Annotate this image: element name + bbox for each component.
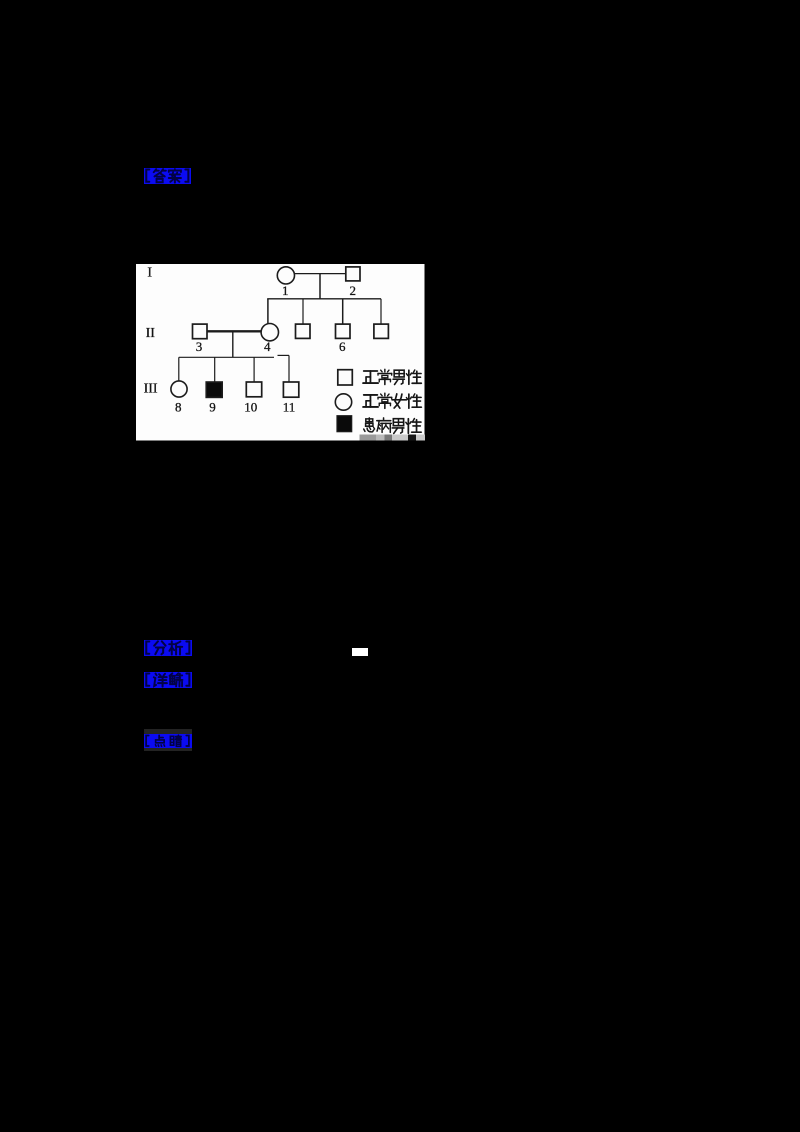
svg-text:3: 3 <box>195 339 202 354</box>
svg-text:4: 4 <box>264 339 271 354</box>
male I-2 square <box>345 266 359 280</box>
male II-7 square <box>373 324 388 338</box>
drop to II-5 <box>302 298 304 323</box>
tips label 【点睛】 blue highlight <box>144 734 192 748</box>
female II-4 circle <box>261 323 278 340</box>
tips label grey halo <box>144 729 192 752</box>
marriage line I-1 I-2 <box>294 272 345 274</box>
legend normal male square <box>337 369 352 384</box>
drop to III-9 <box>213 357 215 382</box>
legend affected male filled square <box>337 415 352 431</box>
svg-text:10: 10 <box>244 399 257 414</box>
detail label 【详解】 blue highlight <box>144 672 192 688</box>
drop to II-4 <box>266 298 268 323</box>
svg-text:9: 9 <box>209 399 216 414</box>
svg-text:1: 1 <box>281 283 288 298</box>
answer label 【答案】 blue highlight <box>144 168 191 184</box>
male II-6 square <box>335 324 350 338</box>
drop to III-8 <box>177 357 179 381</box>
male III-11 square <box>283 382 298 397</box>
drop to II-7 <box>380 298 382 323</box>
svg-text:I: I <box>147 265 152 280</box>
marriage line II-3 II-4 <box>207 330 261 332</box>
descent line from I couple <box>319 273 321 298</box>
sibling line generation III <box>178 356 273 358</box>
male II-3 square <box>192 324 207 339</box>
pedigree chart figure <box>136 264 425 441</box>
affected male III-9 filled square <box>206 382 222 397</box>
drop to III-11 <box>288 355 290 382</box>
sibling line generation II <box>267 297 381 299</box>
legend normal female circle <box>335 393 351 409</box>
analysis label 【分析】 blue highlight <box>144 640 192 656</box>
grey artifact bar at image bottom <box>359 434 376 440</box>
inline formula white box <box>352 648 368 656</box>
svg-text:III: III <box>143 381 157 396</box>
descent line from II-3 II-4 <box>231 331 233 357</box>
drop to II-6 <box>341 298 343 323</box>
svg-text:2: 2 <box>349 283 356 298</box>
male III-10 square <box>246 382 261 397</box>
svg-text:11: 11 <box>282 399 295 414</box>
svg-text:6: 6 <box>338 339 345 354</box>
female III-8 circle <box>170 380 186 396</box>
legend text affected male 患病男性 <box>363 417 374 431</box>
legend text normal female 正常女性 <box>363 394 378 406</box>
drop to III-10 <box>253 357 255 382</box>
male II-5 square <box>295 324 310 338</box>
svg-text:II: II <box>145 326 155 341</box>
svg-text:8: 8 <box>174 399 181 414</box>
sibling line III right step <box>277 354 289 356</box>
legend text normal male 正常男性 <box>363 371 378 383</box>
female I-1 circle <box>277 266 294 283</box>
